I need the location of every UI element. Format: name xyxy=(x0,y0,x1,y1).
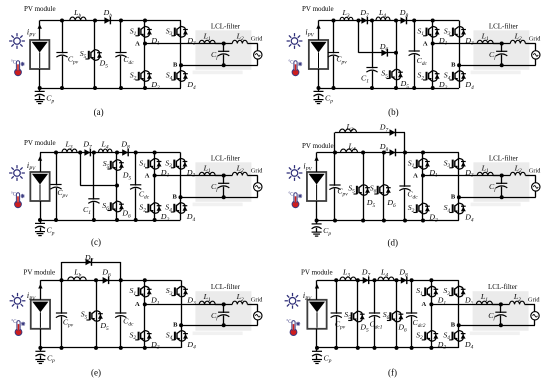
svg-text:Grid: Grid xyxy=(251,167,263,174)
svg-text:B: B xyxy=(451,61,456,68)
svg-text:PV module: PV module xyxy=(24,269,56,277)
svg-text:(d): (d) xyxy=(388,238,399,248)
svg-text:A: A xyxy=(145,172,150,179)
svg-text:°C: °C xyxy=(286,320,291,325)
svg-text:°C: °C xyxy=(11,60,16,65)
svg-text:PV module: PV module xyxy=(24,139,56,147)
svg-text:Grid: Grid xyxy=(251,296,263,303)
svg-text:(e): (e) xyxy=(91,368,101,378)
svg-text:B: B xyxy=(173,321,178,328)
svg-text:LCL-filter: LCL-filter xyxy=(489,22,519,30)
svg-text:PV module: PV module xyxy=(24,5,56,13)
svg-text:B: B xyxy=(173,61,178,68)
svg-text:Grid: Grid xyxy=(528,296,540,303)
svg-text:(a): (a) xyxy=(94,107,104,117)
svg-text:A: A xyxy=(423,40,428,47)
svg-text:A: A xyxy=(422,301,427,308)
svg-text:LCL-filter: LCL-filter xyxy=(211,154,241,162)
svg-text:LCL-filter: LCL-filter xyxy=(488,283,518,291)
svg-text:°C: °C xyxy=(288,60,293,65)
svg-text:(b): (b) xyxy=(388,107,399,117)
svg-text:PV module: PV module xyxy=(302,5,334,13)
svg-text:Grid: Grid xyxy=(529,167,541,174)
svg-text:Grid: Grid xyxy=(251,35,263,42)
svg-text:PV module: PV module xyxy=(302,142,334,150)
svg-text:B: B xyxy=(451,321,456,328)
svg-text:°C: °C xyxy=(11,320,16,325)
svg-text:Grid: Grid xyxy=(529,35,541,42)
svg-text:(c): (c) xyxy=(91,237,101,247)
svg-text:A: A xyxy=(135,301,140,308)
svg-text:PV module: PV module xyxy=(301,269,333,277)
svg-text:A: A xyxy=(135,40,140,47)
svg-text:B: B xyxy=(451,193,456,200)
svg-text:LCL-filter: LCL-filter xyxy=(211,283,241,291)
svg-text:B: B xyxy=(173,193,178,200)
svg-text:A: A xyxy=(413,172,418,179)
svg-text:°C: °C xyxy=(288,192,293,197)
svg-text:°C: °C xyxy=(11,192,16,197)
svg-text:(f): (f) xyxy=(388,368,397,378)
svg-text:LCL-filter: LCL-filter xyxy=(489,154,519,162)
svg-text:LCL-filter: LCL-filter xyxy=(211,22,241,30)
